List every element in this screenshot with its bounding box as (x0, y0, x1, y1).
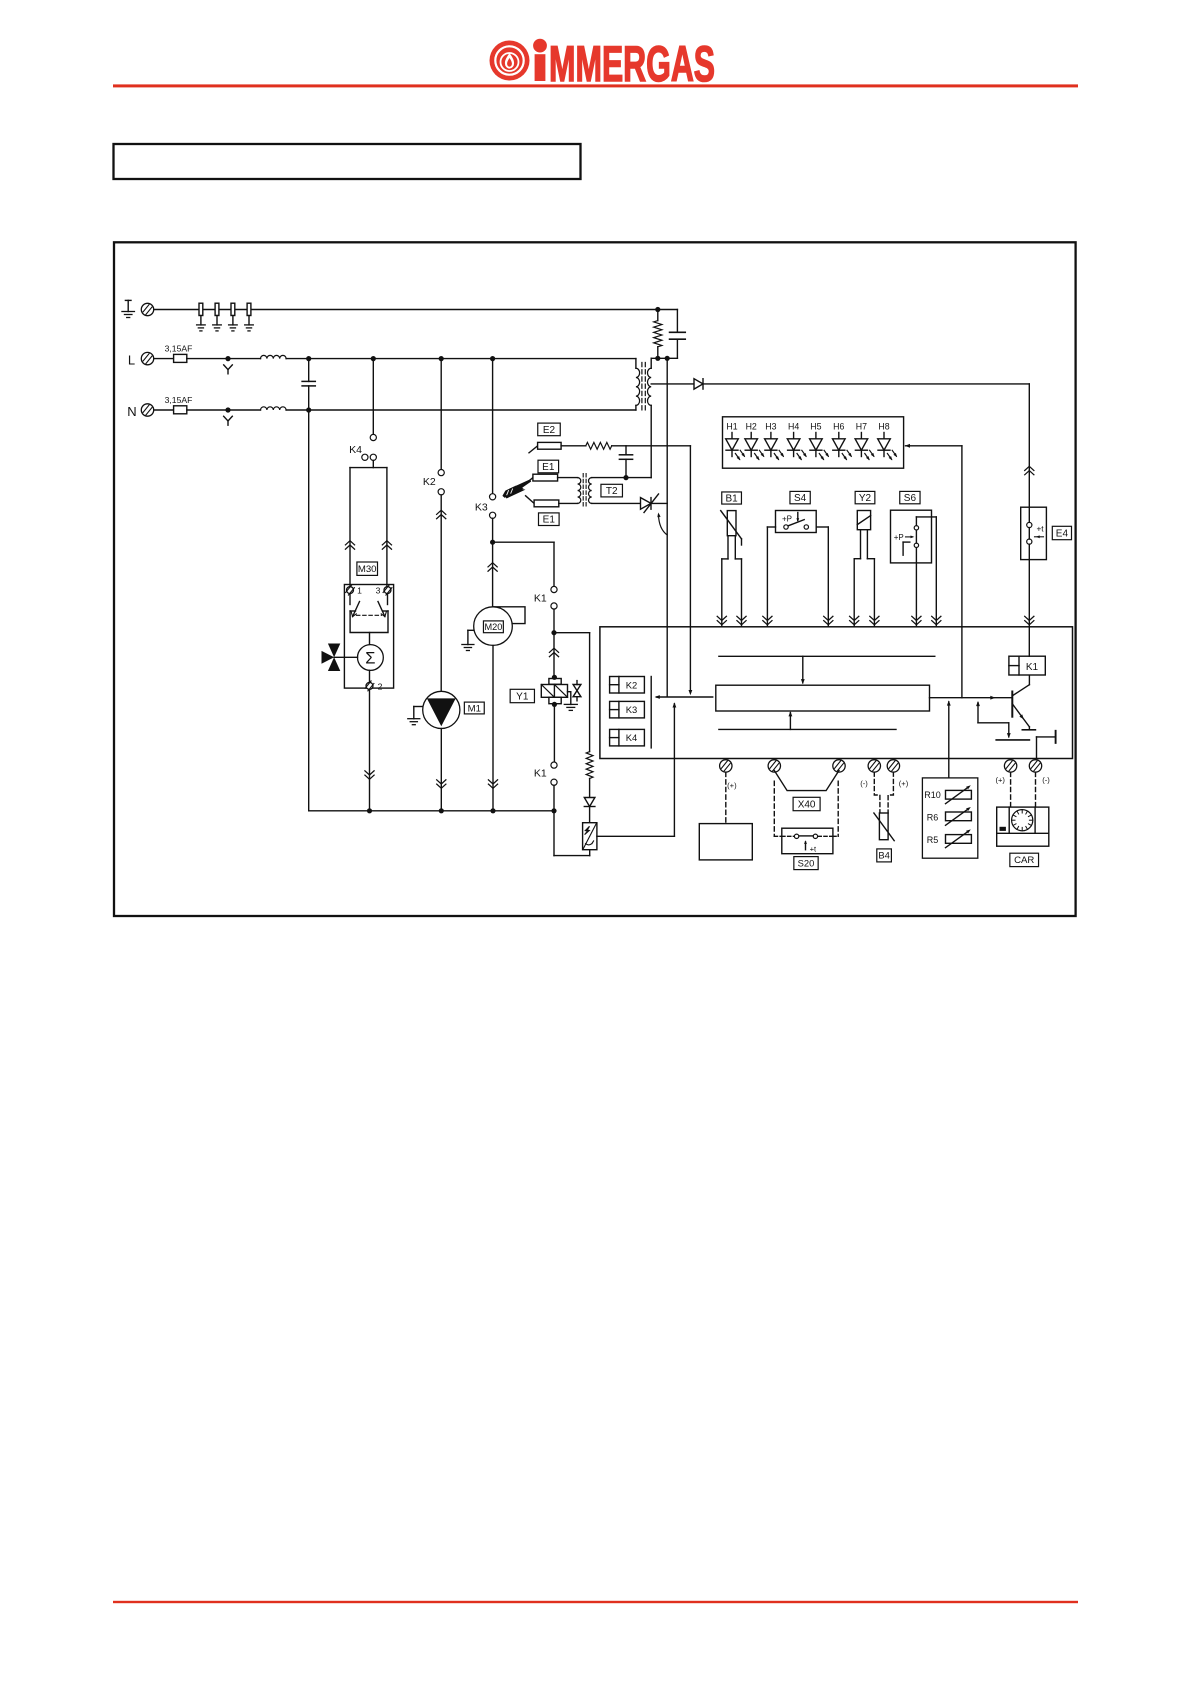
wire K3 junction down to fan (492, 542, 494, 607)
arrowhead into LED box (905, 444, 910, 448)
arrowhead detection rail (689, 690, 693, 695)
wire E1 upper to T2 (558, 477, 578, 479)
wires S6 to PCB (916, 517, 936, 627)
capacitor C2 to earth line (670, 310, 686, 359)
inductor L2 (line filter N) (261, 407, 287, 410)
svg-text:K1: K1 (534, 593, 547, 605)
svg-text:K3: K3 (475, 502, 488, 514)
node L-capacitor junction (306, 356, 311, 361)
pressure switch S4 (776, 511, 817, 533)
sensor B1 plug (722, 536, 742, 627)
terminal M30 pin 1 (346, 585, 363, 596)
transformer T1 secondary winding (648, 368, 652, 405)
wire inductor to transformer primary (286, 358, 636, 360)
coil Y2 plug (854, 530, 874, 627)
flow chevron on M1 feed (437, 510, 446, 519)
jumper X40 label (793, 797, 820, 810)
wire K1 lower to bottom bus (553, 785, 555, 811)
svg-text:H5: H5 (810, 422, 821, 432)
capacitor C3 on detection line (619, 446, 632, 478)
ground below arrester F1 (197, 325, 206, 331)
svg-text:CAR: CAR (1014, 855, 1034, 866)
earth terminal (141, 303, 153, 315)
node L-K3 branch (490, 356, 495, 361)
svg-text:1: 1 (357, 586, 362, 596)
arrowhead S20 actuator (804, 840, 807, 844)
flow chevron on M20 feed (488, 563, 497, 572)
svg-text:3,15AF: 3,15AF (165, 395, 193, 405)
svg-text:T2: T2 (606, 486, 618, 497)
svg-text:K1: K1 (534, 767, 547, 779)
wire detection rail down to PCB (689, 446, 691, 692)
svg-text:H2: H2 (746, 422, 757, 432)
diode D3 igniter (584, 798, 595, 807)
flow chevron M1 return (437, 780, 446, 789)
wire L to K2 contact (440, 359, 442, 470)
modulating coil Y2 (857, 511, 870, 530)
electrode E1 lower label (539, 513, 560, 526)
wire K3 to junction (492, 518, 494, 542)
main PCB box (600, 627, 1073, 759)
wire inductor to transformer primary bottom (286, 409, 636, 411)
electrode E2 (529, 442, 561, 452)
node N-capacitor junction (306, 407, 311, 412)
gas valve Y1 label (510, 689, 534, 702)
node K3 branch (490, 540, 495, 545)
resistor R2 (detection) (586, 442, 612, 449)
chevrons Y2 to PCB (850, 616, 859, 625)
terminal M30 pin 2 (365, 670, 383, 691)
trimmer R10 (924, 787, 971, 804)
svg-text:K4: K4 (349, 444, 362, 456)
LED H8 (878, 422, 897, 460)
svg-text:R6: R6 (927, 812, 939, 822)
arrow micro from lower rail (789, 713, 791, 730)
svg-text:B4: B4 (878, 850, 889, 861)
svg-text:M30: M30 (358, 564, 377, 575)
wire bus to igniter return (554, 811, 590, 856)
svg-text:(-): (-) (860, 779, 868, 788)
fan M20 label (483, 621, 503, 633)
ignition transformer T2 windings (578, 474, 592, 508)
terminal CAR (+) (1004, 760, 1016, 772)
wire D1 to E4 branch corner (703, 384, 1029, 507)
wire E2 to resistor (561, 445, 586, 447)
node L-K2 branch (439, 356, 444, 361)
terminal X40-b (833, 760, 845, 772)
wire vertical rail from RC junction to PCB (666, 358, 668, 697)
limit thermostat E4 (1021, 507, 1047, 559)
pressure switch S6 label (900, 491, 920, 504)
modulating coil Y2 label (855, 491, 875, 504)
arrowhead loop up (976, 701, 980, 706)
svg-text:E2: E2 (543, 425, 556, 436)
wire R2 to branch corner (612, 445, 691, 447)
relay contact K4 (349, 434, 376, 460)
svg-text:(+): (+) (995, 776, 1005, 785)
node L test fork (224, 356, 233, 374)
arrowhead emitter (1019, 714, 1024, 719)
electrode E1 upper label (538, 460, 559, 473)
relay coil K2 on PCB (610, 677, 645, 694)
flow chevron Y1 feed (549, 648, 558, 657)
wire M30 pin2 to bottom bus (369, 689, 371, 811)
flow chevron M20 return (488, 780, 497, 789)
terminal B4 (-) (868, 760, 880, 772)
svg-text:+t: +t (1036, 525, 1044, 534)
header red rule (113, 84, 1078, 87)
Immergas logo wordmark iMMERGAS (533, 35, 715, 92)
room unit box (699, 824, 752, 860)
pump M1 (423, 691, 460, 728)
flow chevron M30 return (365, 771, 374, 780)
arrowhead loop down (1007, 733, 1011, 738)
fan M20 (474, 607, 525, 646)
PCB lower internal rail (719, 728, 896, 730)
wire bottom neutral bus (309, 810, 554, 812)
arrowhead base drive (990, 696, 995, 700)
jumper X40 bridge (774, 771, 839, 791)
signal ground plate (996, 739, 1029, 741)
chevrons S6 to PCB (912, 616, 921, 625)
M30 limit switches (350, 594, 388, 633)
wire E1 lower to T2 (559, 502, 578, 504)
svg-text:E1: E1 (542, 462, 555, 473)
svg-text:L: L (128, 352, 135, 367)
gas valve Y1 coil (541, 675, 567, 707)
wire base feedback loop (978, 703, 1009, 737)
svg-text:S6: S6 (904, 493, 917, 504)
svg-text:R5: R5 (927, 835, 939, 845)
svg-text:(+): (+) (899, 779, 909, 788)
trimmer box R10 R6 R5 (922, 778, 977, 858)
svg-text:MMERGAS: MMERGAS (549, 35, 715, 92)
svg-text:B1: B1 (725, 493, 738, 504)
transformer T1 primary winding (636, 359, 640, 410)
ground at gas valve (568, 692, 571, 705)
remote control CAR label (1010, 853, 1039, 866)
ground below arrester F3 (229, 325, 238, 331)
ground below arrester F2 (213, 325, 222, 331)
PCB upper internal rail (719, 655, 935, 657)
svg-text:X40: X40 (798, 799, 816, 810)
surge arrester F1 to earth (199, 303, 203, 325)
node C3 to T2 wire (623, 475, 628, 480)
chevrons B1 to PCB (717, 616, 726, 625)
room thermostat S20 label (794, 857, 818, 870)
wire spark generator to PCB sense (597, 704, 675, 837)
svg-text:Y1: Y1 (516, 691, 529, 702)
sensor B4 label (877, 849, 892, 862)
svg-text:H1: H1 (726, 422, 737, 432)
arrowhead trimmers (947, 700, 951, 705)
motor M30 sigma motor (358, 633, 384, 671)
terminal B4 (+) (887, 760, 899, 772)
node bus-K1 (551, 808, 556, 813)
svg-text:S20: S20 (798, 857, 815, 868)
title box (114, 144, 581, 179)
resistor R1 to earth line (654, 310, 662, 359)
node bus-M20 (490, 808, 495, 813)
LED H7 (855, 422, 874, 460)
footer red rule (113, 1601, 1078, 1603)
wire branch down to igniter resistor (589, 633, 591, 752)
LED H5 (810, 422, 829, 460)
relay coil K1 on PCB (1009, 656, 1045, 675)
node earth-R1 (655, 307, 660, 312)
svg-text:H6: H6 (833, 422, 844, 432)
diagram outer frame (114, 242, 1076, 916)
wires S4 to PCB (767, 527, 828, 627)
spark generator unit (583, 823, 597, 850)
svg-text:R10: R10 (924, 790, 941, 800)
LED indicator box (723, 417, 904, 468)
transistor Q1 (1012, 675, 1029, 730)
chevrons S4 to PCB (763, 616, 772, 625)
remote control CAR (997, 807, 1049, 846)
fuse 3,15AF (N) (165, 395, 193, 414)
dashed wires to sensor B4 (874, 772, 893, 813)
wire branch to Y1 column (493, 542, 554, 586)
flow chevron on E4 wire (1025, 466, 1034, 475)
terminal M30 pin 3 (376, 585, 392, 596)
sensor B1 NTC (721, 511, 742, 545)
svg-text:M20: M20 (484, 622, 502, 632)
electrode E2 label (538, 423, 561, 436)
svg-text:2: 2 (378, 681, 383, 691)
wire T2 secondary top rail (592, 477, 652, 479)
wire L terminal to fuse (154, 358, 174, 360)
dashed wire to room unit (725, 772, 727, 823)
svg-text:E4: E4 (1056, 528, 1069, 539)
node igniter branch (551, 630, 556, 635)
relay contact K1 upper (534, 586, 557, 609)
pressure switch S4 label (790, 491, 810, 504)
LED H6 (833, 422, 852, 460)
trimmer R5 (927, 831, 972, 848)
svg-text:+P: +P (782, 514, 792, 523)
svg-text:H8: H8 (878, 422, 889, 432)
svg-text:3: 3 (376, 586, 381, 596)
arrow rail to micro (802, 656, 804, 683)
wire drive arrow to relays (657, 696, 713, 698)
wire K1 to Y1 junction (553, 609, 555, 633)
node L-K4 branch (371, 356, 376, 361)
surge arrester F3 to earth (231, 303, 235, 325)
three-way valve symbol (322, 644, 341, 672)
flow chevrons on M30 feeds (345, 541, 354, 550)
wire D3 to spark generator (589, 807, 591, 823)
transformer T1 core (642, 363, 645, 412)
wire Y1 to K1 lower (553, 708, 555, 762)
relay contact K2 (423, 470, 444, 495)
svg-text:+P: +P (894, 533, 904, 542)
thyristor D2 (igniter trigger) (641, 494, 659, 513)
microcontroller block (716, 685, 930, 711)
ground below arrester F4 (245, 325, 254, 331)
wire fuse to junction (187, 358, 261, 360)
wire K2 to pump M1 (440, 495, 442, 692)
ground at fan M20 (468, 630, 474, 644)
trimmer R6 (927, 809, 972, 826)
svg-text:Σ: Σ (365, 649, 375, 667)
fuse 3,15AF (L) (165, 344, 193, 363)
gate curve arrow (659, 515, 668, 535)
wire M1 to bottom bus (440, 729, 442, 811)
terminal L (141, 352, 153, 364)
wire secondary bottom down to T2 area (650, 405, 652, 477)
LED H2 (745, 422, 764, 460)
external sensor B4 NTC (874, 813, 894, 841)
resistor R3 igniter (586, 752, 593, 779)
node bus-M30 (367, 808, 372, 813)
chevron E4 to PCB (1025, 616, 1034, 625)
relay drive bar (650, 677, 652, 748)
arrowhead sense up (673, 702, 677, 707)
Y1 pilot valve symbol (573, 681, 581, 701)
surge arrester F4 to earth (247, 303, 251, 325)
wire neutral down to bottom bus (308, 410, 310, 811)
pump M1 label (464, 702, 484, 714)
svg-text:N: N (127, 404, 136, 419)
inductor L1 (line filter L) (261, 355, 287, 358)
relay coil K4 on PCB (610, 729, 645, 746)
earth symbol at mains input (125, 300, 131, 311)
node N test fork (224, 407, 233, 425)
svg-text:S4: S4 (794, 493, 807, 504)
spark gap symbol (504, 481, 531, 498)
surge arrester F2 to earth (215, 303, 219, 325)
svg-text:(-): (-) (1042, 776, 1050, 785)
dashed wires to S20 (774, 781, 838, 836)
node secondary-branch (665, 356, 670, 361)
electrode E1 lower (526, 496, 559, 507)
wire micro to transistor base (930, 697, 1013, 699)
svg-text:K3: K3 (626, 704, 637, 715)
wire branch to igniter column (554, 632, 590, 634)
sensor B1 label (722, 492, 742, 504)
capacitor C1 between L and N (302, 359, 315, 410)
svg-text:K2: K2 (423, 476, 436, 488)
reference cell (1037, 731, 1056, 759)
wire L to K3 contact (492, 359, 494, 494)
node secondary-R1 (655, 356, 660, 361)
relay contact K3 (475, 494, 496, 519)
terminal X40-a (768, 760, 780, 772)
LED H1 (726, 422, 745, 460)
diode D1 on low-voltage rail (651, 379, 703, 389)
pressure switch S6 (891, 510, 937, 563)
wire R3 to diode (589, 779, 591, 798)
node bus-M1 (439, 808, 444, 813)
thermostat E4 label (1052, 526, 1071, 539)
svg-text:Y2: Y2 (859, 493, 872, 504)
emitter plate (1022, 729, 1035, 731)
LED H3 (765, 422, 784, 460)
wire H-box feedback (906, 446, 962, 698)
svg-text:3,15AF: 3,15AF (165, 344, 193, 354)
svg-text:K2: K2 (626, 679, 637, 690)
wire junction to gas valve Y1 (553, 633, 555, 678)
LED H4 (787, 422, 806, 460)
arrowhead drive to relays (655, 695, 660, 699)
wire E4 to PCB / relay K1 (1028, 560, 1030, 657)
relay contact K1 lower (534, 762, 557, 785)
wire valve to motor (334, 656, 357, 658)
valve motor M30 box (344, 585, 393, 689)
wire T2 secondary bottom to SCR (592, 502, 641, 504)
Immergas logo flame emblem (490, 41, 530, 81)
wire SCR to vertical rail (651, 502, 668, 504)
svg-text:M1: M1 (468, 703, 481, 714)
svg-text:E1: E1 (543, 515, 556, 526)
wire earth line (154, 309, 678, 311)
svg-text:K1: K1 (1026, 662, 1039, 673)
wire fuse to inductor (187, 409, 261, 411)
wire trimmers to PCB (948, 702, 950, 778)
svg-text:K4: K4 (626, 732, 637, 743)
svg-text:+t: +t (810, 844, 817, 853)
dashed wires to CAR (1011, 772, 1036, 807)
relay coil K3 on PCB (610, 701, 645, 718)
wire N terminal to fuse (154, 409, 174, 411)
wire K4 fork to M30 (350, 461, 387, 587)
room thermostat S20 box (782, 828, 833, 854)
ground at pump M1 (414, 707, 423, 719)
svg-text:H3: H3 (765, 422, 776, 432)
svg-text:(+): (+) (727, 781, 737, 790)
wire L to K4 contact (372, 359, 374, 435)
terminal CAR (-) (1029, 760, 1041, 772)
svg-text:H7: H7 (856, 422, 867, 432)
svg-text:H4: H4 (788, 422, 799, 432)
terminal TA (+) (720, 760, 732, 772)
electrode E1 upper (525, 474, 558, 484)
terminal N (141, 404, 153, 416)
wire secondary top to RC junction (651, 358, 677, 368)
wire M20 to bottom bus (492, 645, 494, 810)
transformer T2 label (601, 484, 623, 497)
motor M30 label (357, 562, 378, 575)
